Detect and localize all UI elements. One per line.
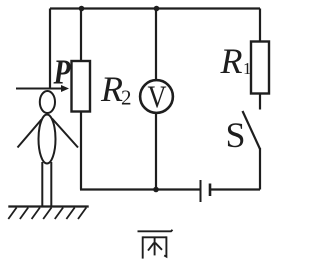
person body	[39, 115, 56, 164]
svg-text:R: R	[220, 41, 243, 81]
wire bottom rail left (to battery)	[80, 188, 201, 190]
wiper arrow P of rheostat	[16, 85, 69, 92]
person right arm	[52, 119, 78, 148]
resistor R1 body	[251, 42, 269, 94]
battery cell long plate (+)	[200, 180, 202, 202]
person head	[40, 91, 55, 113]
svg-text:R: R	[100, 69, 123, 109]
node junction bottom of voltmeter	[153, 187, 159, 193]
switch S blade (open)	[243, 111, 261, 149]
wire voltmeter bottom lead	[155, 113, 157, 190]
wire left vertical branch	[49, 9, 51, 89]
wire switch to bottom rail	[259, 148, 261, 190]
svg-text:P: P	[53, 53, 71, 92]
person left leg	[41, 162, 43, 206]
node junction top of R2	[79, 6, 85, 12]
ground earth line	[8, 205, 88, 207]
wire right vertical top (to R1)	[259, 9, 261, 42]
svg-text:V: V	[148, 79, 167, 115]
label caption 丙 (drawn strokes)	[138, 230, 173, 259]
wire voltmeter top lead	[155, 9, 157, 81]
person left arm	[18, 120, 42, 148]
svg-text:2: 2	[121, 86, 132, 110]
wire top horizontal	[50, 7, 260, 9]
wire R2 bottom lead down to bottom rail	[80, 112, 82, 190]
person right leg	[50, 162, 52, 206]
battery cell short plate (-)	[209, 184, 212, 197]
wire R2 top lead	[80, 9, 82, 62]
node junction top of voltmeter	[154, 6, 160, 12]
ground hatch strokes	[8, 208, 86, 220]
voltmeter V meter circle	[140, 80, 173, 113]
wire bottom rail right (battery to right corner)	[210, 188, 260, 190]
svg-text:1: 1	[243, 59, 252, 78]
resistor R2 body	[72, 61, 91, 112]
svg-text:S: S	[226, 115, 246, 155]
wire R1 bottom lead to switch	[259, 94, 261, 110]
